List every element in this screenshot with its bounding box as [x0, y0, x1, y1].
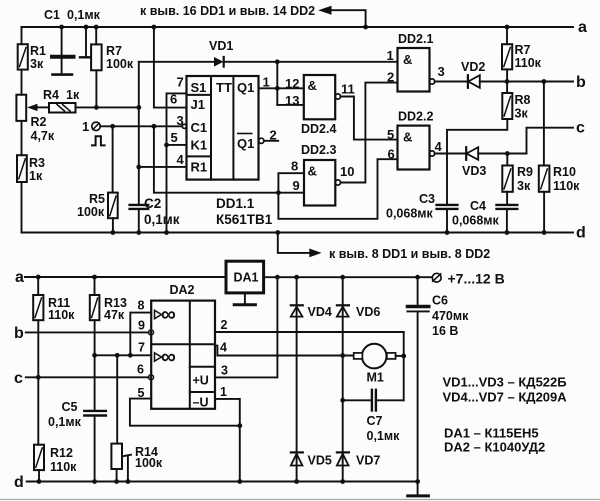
- svg-text:ТТ: ТТ: [216, 80, 232, 95]
- svg-text:7: 7: [177, 75, 184, 90]
- svg-text:C2: C2: [144, 196, 161, 211]
- svg-text:13: 13: [285, 93, 299, 108]
- svg-text:DA2: DA2: [170, 283, 195, 297]
- svg-text:1: 1: [82, 119, 89, 134]
- pin 9 inverting circle: [148, 330, 153, 335]
- op-amp symbol 1: [155, 310, 162, 318]
- svg-text:110к: 110к: [553, 179, 580, 193]
- svg-text:DD2.3: DD2.3: [301, 143, 336, 157]
- svg-text:VD7: VD7: [356, 454, 380, 468]
- node VD6 junctions: [340, 353, 345, 358]
- svg-text:c: c: [14, 370, 23, 387]
- svg-text:7: 7: [138, 341, 145, 355]
- input terminal 1: [92, 122, 100, 130]
- wire pin7 node: [95, 354, 152, 356]
- svg-text:1: 1: [387, 48, 394, 63]
- wire S1-K1 ground net: [167, 93, 187, 232]
- svg-text:R2: R2: [31, 115, 47, 129]
- resistor R13: [94, 277, 96, 295]
- svg-text:1к: 1к: [66, 88, 80, 102]
- node R4-VD1 junction: [136, 105, 141, 110]
- gate DD2.4: [304, 75, 335, 119]
- svg-text:Q1: Q1: [237, 136, 254, 151]
- wire pin 9: [278, 192, 304, 194]
- svg-text:R1: R1: [191, 160, 208, 175]
- diode VD4 column wire: [296, 277, 298, 481]
- svg-text:3к: 3к: [515, 107, 529, 121]
- svg-text:16 В: 16 В: [432, 324, 458, 338]
- resistor R1: [18, 44, 28, 69]
- svg-text:12: 12: [285, 76, 299, 91]
- diode VD3: [435, 153, 466, 155]
- wire clock to DD2.2 pin6: [278, 159, 397, 219]
- svg-text:10: 10: [340, 164, 354, 179]
- resistor R8: [506, 82, 508, 94]
- node pin4 junction: [136, 165, 141, 170]
- wire a-rail top section: [22, 26, 574, 28]
- ground under DA1: [244, 293, 246, 304]
- svg-text:DA2 – К1040УД2: DA2 – К1040УД2: [444, 440, 545, 455]
- svg-text:8: 8: [291, 159, 298, 174]
- svg-text:VD4...VD7 – КД209А: VD4...VD7 – КД209А: [443, 390, 568, 405]
- svg-text:VD6: VD6: [356, 305, 380, 319]
- svg-text:C1: C1: [44, 8, 60, 22]
- svg-text:&: &: [308, 78, 317, 93]
- svg-text:100к: 100к: [106, 57, 134, 71]
- motor M1: [362, 344, 387, 369]
- node R7' top junction: [505, 25, 510, 30]
- pin 6 inverting circle: [148, 375, 153, 380]
- svg-text:VD3: VD3: [462, 164, 486, 178]
- svg-text:R4: R4: [43, 88, 59, 102]
- wire -U net to d-rail: [239, 426, 241, 482]
- node c junction: [505, 151, 510, 156]
- capacitor C5: [84, 410, 106, 412]
- resistor R7 (left 100k): [95, 27, 97, 44]
- svg-text:c: c: [576, 120, 585, 137]
- svg-text:1: 1: [220, 385, 227, 399]
- wire left rail top corner: [21, 27, 23, 44]
- svg-text:3к: 3к: [517, 179, 531, 193]
- svg-text:0,1мк: 0,1мк: [67, 8, 101, 22]
- svg-text:+U: +U: [193, 374, 209, 388]
- gate DD2.1: [398, 48, 430, 92]
- svg-text:R7: R7: [106, 44, 122, 58]
- wire pin 1: [215, 399, 240, 426]
- svg-text:R7: R7: [515, 43, 531, 57]
- svg-text:2: 2: [221, 318, 228, 332]
- resistor R4 with wiper arrow: [36, 106, 49, 108]
- wire top arrow to Vcc pins: [330, 10, 366, 27]
- node stub bar: [85, 27, 87, 56]
- svg-text:J1: J1: [191, 97, 205, 112]
- svg-text:4,7к: 4,7к: [31, 129, 55, 143]
- wire pin 5 loop: [130, 399, 240, 426]
- svg-text:VD1: VD1: [209, 39, 233, 53]
- svg-text:2: 2: [387, 70, 394, 85]
- capacitor C4: [497, 204, 518, 206]
- node C1 top junction: [59, 25, 64, 30]
- node R7 top junction: [94, 25, 99, 30]
- gate DD2.3: [304, 160, 335, 206]
- svg-text:3: 3: [221, 364, 228, 378]
- diode VD5: [291, 451, 303, 453]
- scan edge artifact line: [0, 499, 600, 501]
- svg-text:DD1.1: DD1.1: [216, 196, 255, 211]
- svg-text:DA1 – К115ЕН5: DA1 – К115ЕН5: [444, 426, 539, 441]
- diode VD2: [435, 81, 468, 83]
- svg-text:к выв. 8 DD1 и выв. 8 DD2: к выв. 8 DD1 и выв. 8 DD2: [329, 247, 490, 261]
- capacitor C3: [437, 204, 458, 206]
- IC DA2 box: [151, 301, 215, 409]
- wire a-rail bottom section: [25, 276, 226, 278]
- svg-text:470мк: 470мк: [432, 309, 469, 323]
- wire DA1 out: [264, 276, 432, 278]
- wire pin 5 K1: [167, 144, 187, 146]
- svg-text:4: 4: [220, 341, 227, 355]
- node pins 8-9 junction: [276, 190, 281, 195]
- node pin1-12-13 junction: [275, 86, 280, 91]
- resistor R10: [543, 82, 545, 166]
- svg-text:b: b: [576, 74, 586, 91]
- svg-text:100к: 100к: [77, 205, 105, 219]
- node K1 junction: [164, 143, 169, 148]
- wire d-rail top section: [22, 232, 574, 234]
- wire pin 12: [277, 87, 304, 89]
- wire pin 3 from DA1 node: [215, 277, 277, 377]
- node pin3 junction: [152, 124, 157, 129]
- svg-text:9: 9: [138, 319, 145, 333]
- svg-text:DD2.2: DD2.2: [398, 110, 433, 124]
- wire pin 13: [277, 104, 304, 106]
- svg-text:–U: –U: [193, 396, 209, 410]
- svg-text:100к: 100к: [135, 456, 163, 470]
- svg-text:DA1: DA1: [234, 271, 259, 285]
- resistor R14 trimmer: [116, 355, 118, 443]
- svg-text:3к: 3к: [30, 57, 44, 71]
- svg-text:R3: R3: [29, 156, 45, 170]
- svg-text:1: 1: [263, 75, 270, 90]
- wire b-rail bottom section: [26, 331, 149, 333]
- svg-text:3: 3: [438, 64, 445, 79]
- svg-text:9: 9: [293, 178, 300, 193]
- svg-text:&: &: [308, 164, 317, 179]
- resistor R7' (right 110k): [506, 27, 508, 44]
- node b-R10 junction: [542, 79, 547, 84]
- svg-text:4: 4: [177, 152, 185, 167]
- svg-text:C4: C4: [470, 199, 486, 213]
- resistor R3: [17, 155, 27, 182]
- svg-text:C1: C1: [191, 120, 208, 135]
- wire VD1 anode vertical: [138, 62, 140, 205]
- op-amp symbol 2: [155, 353, 162, 361]
- svg-text:К561ТВ1: К561ТВ1: [216, 212, 273, 227]
- svg-text:M1: M1: [367, 371, 384, 385]
- svg-text:4: 4: [435, 139, 443, 154]
- svg-text:DD2.1: DD2.1: [398, 32, 433, 46]
- svg-text:DD2.4: DD2.4: [301, 122, 336, 136]
- wire pin 4 to motor left: [215, 346, 354, 356]
- svg-text:K1: K1: [191, 138, 208, 153]
- svg-text:a: a: [15, 269, 24, 286]
- capacitor C2: [130, 204, 149, 206]
- node R11-R12 c junction: [36, 375, 41, 380]
- svg-text:C3: C3: [419, 192, 435, 206]
- svg-text:d: d: [576, 225, 586, 242]
- svg-text:a: a: [578, 19, 587, 36]
- svg-text:VD5: VD5: [308, 454, 332, 468]
- pulse symbol: [92, 136, 105, 145]
- svg-text:C6: C6: [432, 294, 448, 308]
- svg-text:6: 6: [388, 147, 395, 162]
- resistor R5: [112, 126, 114, 192]
- svg-text:&: &: [403, 130, 412, 145]
- svg-text:Q1: Q1: [237, 80, 254, 95]
- svg-text:R9: R9: [517, 165, 533, 179]
- svg-text:0,068мк: 0,068мк: [452, 214, 500, 228]
- node R7-R4 junction: [94, 105, 99, 110]
- capacitor C7: [343, 399, 372, 401]
- svg-text:0,068мк: 0,068мк: [386, 207, 434, 221]
- wire motor right: [396, 355, 404, 357]
- node VD1-DD2.1 junction: [275, 59, 280, 64]
- wire pin 8: [278, 173, 304, 193]
- IC DA1 box: [226, 261, 264, 293]
- pin 3 dynamic circle: [182, 124, 186, 128]
- svg-text:&: &: [403, 52, 412, 67]
- svg-text:6: 6: [170, 92, 177, 107]
- svg-text:VD4: VD4: [308, 305, 332, 319]
- svg-text:C7: C7: [367, 414, 383, 428]
- resistor R11: [37, 277, 39, 295]
- svg-text:110к: 110к: [515, 56, 542, 70]
- node arrow drop junction: [363, 25, 368, 30]
- diode VD6: [337, 304, 349, 306]
- capacitor C1: [61, 27, 63, 55]
- svg-text:0,1мк: 0,1мк: [48, 415, 82, 429]
- wire pin 1 Q1 out: [259, 87, 278, 89]
- svg-text:11: 11: [341, 82, 355, 97]
- diode VD4: [291, 304, 303, 306]
- wire bottom arrow to gnd pins: [278, 233, 310, 253]
- svg-text:R8: R8: [515, 93, 531, 107]
- svg-text:VD1...VD3 – КД522Б: VD1...VD3 – КД522Б: [443, 375, 567, 390]
- node R5 top junction: [110, 124, 115, 129]
- svg-text:5: 5: [387, 127, 394, 142]
- svg-text:110к: 110к: [48, 308, 75, 322]
- node b-R8 junction: [505, 79, 510, 84]
- svg-text:к выв. 16 DD1 и выв. 14 DD2: к выв. 16 DD1 и выв. 14 DD2: [140, 4, 315, 18]
- wire J1 from rail: [154, 27, 187, 108]
- svg-text:R5: R5: [89, 192, 105, 206]
- svg-text:1к: 1к: [29, 169, 43, 183]
- svg-text:S1: S1: [191, 80, 207, 95]
- power terminal circle: [432, 273, 441, 282]
- wire pin 4 R1 input: [139, 166, 187, 168]
- svg-text:∞: ∞: [161, 346, 176, 369]
- svg-text:+7...12 В: +7...12 В: [448, 271, 505, 287]
- svg-text:VD2: VD2: [461, 60, 485, 74]
- svg-text:C5: C5: [62, 400, 78, 414]
- wire pin 2 to motor right: [215, 331, 404, 333]
- node stub junction: [84, 25, 89, 30]
- svg-text:5: 5: [138, 386, 145, 400]
- wire c rail jog: [527, 128, 574, 154]
- diode VD1: [139, 61, 214, 63]
- ground symbol bottom right: [417, 482, 419, 495]
- svg-text:2: 2: [270, 128, 277, 143]
- wire pin 8 loop: [130, 313, 151, 356]
- svg-text:R12: R12: [50, 446, 73, 460]
- diode VD6 column wire: [342, 277, 344, 481]
- wire R8 to C3: [447, 119, 507, 205]
- gate DD2.2: [398, 126, 430, 170]
- svg-text:110к: 110к: [50, 460, 77, 474]
- svg-text:b: b: [14, 325, 24, 342]
- svg-text:0,1мк: 0,1мк: [144, 212, 180, 227]
- node J1 rail junction: [152, 25, 157, 30]
- pin 2 Q1-bar output circle: [259, 138, 264, 143]
- svg-text:47к: 47к: [104, 308, 125, 322]
- svg-text:0,1мк: 0,1мк: [367, 429, 401, 443]
- wire VD1 node to pin12/13: [276, 62, 278, 105]
- wire clock net down-right: [154, 126, 279, 192]
- node d junctions: [111, 230, 116, 235]
- resistor R9: [506, 154, 508, 166]
- capacitor C6 electrolytic: [417, 277, 419, 305]
- resistor R12: [34, 445, 44, 470]
- svg-text:∞: ∞: [161, 303, 176, 326]
- IC DD1.1 box: [187, 76, 259, 180]
- svg-text:6: 6: [137, 363, 144, 377]
- wire c-rail bottom section: [26, 376, 149, 378]
- svg-text:8: 8: [138, 299, 145, 313]
- diode VD7: [337, 451, 349, 453]
- svg-text:R10: R10: [553, 165, 576, 179]
- potentiometer R2: [16, 95, 26, 121]
- wire d-rail bottom section: [27, 481, 418, 483]
- svg-text:3: 3: [177, 113, 184, 128]
- svg-text:d: d: [14, 474, 24, 491]
- svg-text:5: 5: [171, 130, 178, 145]
- svg-text:R1: R1: [30, 44, 46, 58]
